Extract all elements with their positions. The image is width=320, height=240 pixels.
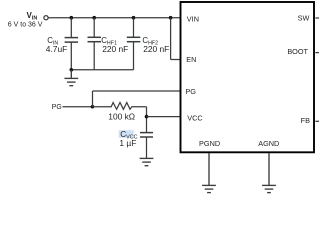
node VIN input terminal (44, 16, 48, 20)
ground AGND (262, 153, 276, 193)
wire SW stub (315, 17, 319, 19)
svg-text:PGND: PGND (199, 139, 220, 148)
svg-text:AGND: AGND (258, 139, 279, 148)
node junction CHF1 (92, 16, 96, 20)
resistor R1 100 kOhm (93, 103, 147, 110)
op IC U1 box (181, 2, 315, 152)
svg-text:VCC: VCC (187, 113, 202, 122)
capacitor CHF1 (88, 18, 102, 70)
wire resistor to VCC node (146, 107, 148, 133)
svg-text:PG: PG (52, 104, 62, 111)
ground CVCC (140, 158, 154, 165)
node junction PG (91, 105, 95, 109)
wire PG up and to IC (93, 91, 181, 107)
svg-text:BOOT: BOOT (287, 47, 308, 56)
svg-text:4.7uF: 4.7uF (46, 44, 67, 54)
capacitor CVCC (140, 133, 153, 137)
svg-text:220 nF: 220 nF (143, 44, 169, 54)
node junction VCC (145, 115, 149, 119)
wire VCC to IC (147, 116, 181, 118)
wire FB stub (315, 120, 319, 122)
node junction CIN (70, 16, 74, 20)
svg-text:100 kΩ: 100 kΩ (108, 112, 135, 122)
svg-text:6 V to 36 V: 6 V to 36 V (8, 22, 43, 29)
capacitor CHF2 (127, 18, 141, 70)
svg-text:1 µF: 1 µF (119, 138, 136, 148)
wire top VIN rail (48, 17, 180, 19)
svg-text:220 nF: 220 nF (102, 44, 128, 54)
ground input bus (64, 70, 78, 86)
node junction CHF2 (132, 16, 136, 20)
node junction ground bus (70, 68, 74, 72)
capacitor CIN (65, 18, 79, 70)
svg-text:PG: PG (185, 87, 196, 96)
svg-text:SW: SW (298, 14, 310, 23)
wire PG to junction (63, 106, 93, 108)
wire ground bus (71, 69, 133, 71)
svg-text:EN: EN (186, 55, 196, 64)
svg-text:FB: FB (301, 116, 310, 125)
node junction EN branch (169, 16, 173, 20)
ground PGND (202, 153, 216, 193)
wire BOOT stub (315, 52, 319, 54)
label CVCC highlighted (119, 130, 134, 138)
svg-text:VIN: VIN (187, 15, 199, 24)
wire EN branch (171, 18, 181, 60)
